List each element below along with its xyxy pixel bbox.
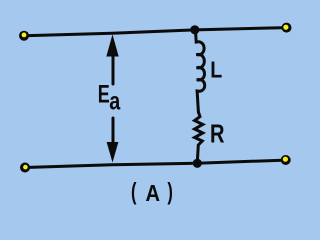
svg-text:): ) [167, 179, 173, 206]
svg-text:A: A [146, 180, 161, 206]
svg-text:R: R [210, 121, 225, 149]
svg-text:(: ( [131, 179, 137, 206]
svg-text:L: L [210, 57, 222, 83]
svg-text:a: a [109, 88, 121, 116]
svg-text:E: E [98, 81, 110, 109]
